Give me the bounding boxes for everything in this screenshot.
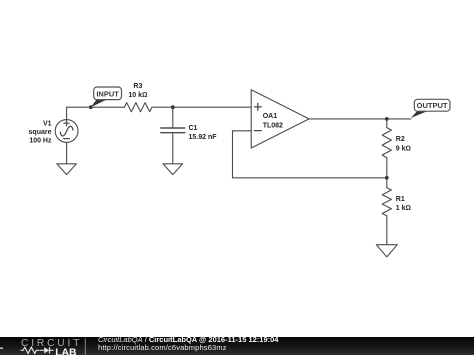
capacitor C1: [161, 128, 185, 133]
wire op-amp - input stub: [233, 130, 252, 132]
wire op-amp output rail: [309, 118, 411, 120]
resistor R1: [382, 188, 391, 216]
footer attribution bar: [0, 337, 474, 355]
op-amp - input pin symbol: [254, 130, 261, 132]
wire R1 bottom lead: [386, 216, 388, 245]
svg-text:OUTPUT: OUTPUT: [417, 101, 448, 110]
wire V1 top lead: [66, 107, 68, 119]
wire V1 bottom lead: [66, 142, 68, 163]
wire top rail V1 to R3: [67, 106, 125, 108]
wire R1 top lead: [386, 178, 388, 188]
resistor R2: [382, 128, 391, 158]
svg-text:INPUT: INPUT: [96, 90, 119, 99]
wire feedback vertical: [232, 131, 234, 178]
op-amp OA1 triangle: [251, 90, 309, 148]
op-amp + input pin symbol: [254, 103, 261, 110]
wire feedback bottom rail to R1/R2 node: [233, 177, 387, 179]
junction node R3/C1: [171, 105, 175, 109]
CircuitLab logo: [0, 337, 95, 355]
svg-text:100 Hz: 100 Hz: [29, 137, 52, 144]
svg-text:V1: V1: [43, 120, 52, 127]
footer text line 2: [98, 343, 227, 352]
voltage source V1: [55, 120, 78, 143]
svg-text:R3: R3: [133, 83, 142, 90]
wire C1 bottom lead: [172, 133, 174, 164]
svg-text:1 kΩ: 1 kΩ: [396, 205, 411, 212]
svg-text:TL082: TL082: [263, 123, 283, 130]
svg-text:square: square: [29, 129, 52, 136]
junction node output/R2: [385, 117, 389, 121]
svg-text:C1: C1: [189, 125, 198, 132]
svg-text:15.92 nF: 15.92 nF: [189, 134, 218, 141]
wire C1 top lead: [172, 107, 174, 128]
ground below R1: [376, 245, 397, 257]
ground below V1: [57, 164, 77, 175]
junction node at INPUT tap: [89, 105, 93, 109]
net flag OUTPUT: [411, 99, 450, 118]
svg-text:LAB: LAB: [55, 348, 77, 355]
wire R2 top lead: [386, 119, 388, 128]
wire R2 bottom lead: [386, 158, 388, 178]
footer text line 1: [98, 335, 278, 344]
svg-text:9 kΩ: 9 kΩ: [396, 146, 411, 153]
junction node R2/R1/feedback: [385, 176, 389, 180]
svg-text:R1: R1: [396, 196, 405, 203]
resistor R3: [124, 103, 152, 112]
svg-text:10 kΩ: 10 kΩ: [128, 92, 147, 99]
net flag INPUT: [91, 87, 122, 107]
svg-text:R2: R2: [396, 136, 405, 143]
svg-text:OA1: OA1: [263, 113, 278, 120]
ground below C1: [163, 164, 183, 175]
wire R3 to op-amp + input: [152, 106, 251, 108]
